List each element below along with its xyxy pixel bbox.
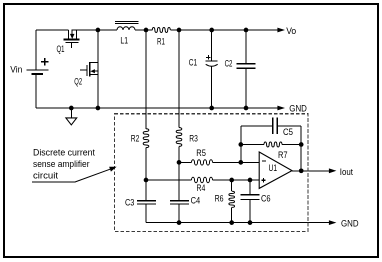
svg-text:C1: C1 xyxy=(189,58,197,68)
svg-text:circuit: circuit xyxy=(33,170,58,180)
svg-text:sense amplifier: sense amplifier xyxy=(33,159,90,169)
svg-text:R4: R4 xyxy=(197,183,206,193)
svg-text:L1: L1 xyxy=(120,35,128,45)
svg-text:C2: C2 xyxy=(225,59,233,69)
svg-text:Iout: Iout xyxy=(340,167,354,177)
svg-text:GND: GND xyxy=(289,104,307,114)
svg-text:R5: R5 xyxy=(196,148,206,158)
svg-text:Q1: Q1 xyxy=(57,44,65,54)
svg-text:R7: R7 xyxy=(278,150,288,160)
svg-text:C5: C5 xyxy=(283,127,293,137)
svg-text:R1: R1 xyxy=(157,37,165,47)
svg-text:R2: R2 xyxy=(131,134,140,144)
svg-text:Q2: Q2 xyxy=(74,77,82,87)
svg-text:U1: U1 xyxy=(269,163,278,173)
svg-text:C4: C4 xyxy=(191,196,201,206)
svg-text:C6: C6 xyxy=(261,193,271,203)
svg-text:R3: R3 xyxy=(189,134,198,144)
svg-text:Discrete current: Discrete current xyxy=(33,147,95,157)
svg-text:Vo: Vo xyxy=(286,26,296,36)
svg-text:Vin: Vin xyxy=(10,65,22,75)
svg-text:GND: GND xyxy=(341,218,359,228)
svg-text:C3: C3 xyxy=(125,198,134,208)
svg-text:R6: R6 xyxy=(215,194,224,204)
